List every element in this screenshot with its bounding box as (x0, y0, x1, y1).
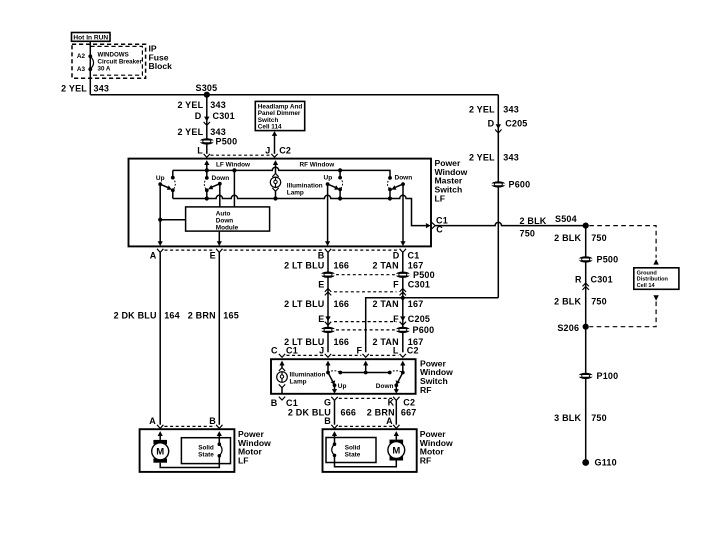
pass-through P500 ground (579, 255, 619, 265)
svg-text:750: 750 (591, 297, 607, 307)
svg-text:C1: C1 (408, 251, 420, 261)
wire 2 TAN 167 pin D down (402, 252, 404, 352)
svg-text:LF: LF (238, 456, 249, 466)
svg-text:Down: Down (376, 383, 394, 390)
dashed pin row of LF motor (165, 425, 216, 427)
svg-text:2 YEL: 2 YEL (469, 152, 495, 162)
svg-text:F: F (393, 279, 399, 289)
svg-text:P100: P100 (597, 371, 619, 381)
headlamp and panel dimmer switch box (255, 101, 304, 130)
svg-text:2 DK BLU: 2 DK BLU (114, 311, 157, 321)
svg-text:C301: C301 (591, 274, 613, 284)
dashed row P500 (336, 274, 395, 276)
auto down module box (186, 207, 270, 231)
svg-text:C1: C1 (286, 398, 298, 408)
svg-text:343: 343 (94, 83, 110, 93)
terminal A3 (88, 67, 92, 71)
power window motor LF box (140, 429, 235, 472)
RF solid state switch (333, 442, 337, 446)
dashed pin row of RF motor (339, 425, 392, 427)
junction auto module feed (232, 168, 236, 172)
svg-text:Hot In RUN: Hot In RUN (73, 35, 108, 42)
LF motor internal bottom wire (160, 463, 219, 468)
dashed wire ground distribution to S206 (589, 302, 656, 327)
svg-text:G: G (324, 398, 331, 408)
stub to LF up contact (172, 170, 174, 177)
splice S206 (583, 324, 589, 330)
svg-text:30 A: 30 A (98, 65, 111, 72)
circuit breaker WINDOWS 30A (90, 56, 93, 69)
svg-text:L: L (393, 346, 399, 356)
svg-text:Solid: Solid (198, 445, 214, 452)
svg-text:A3: A3 (77, 66, 86, 73)
svg-text:LF: LF (435, 194, 446, 204)
svg-text:Block: Block (149, 61, 173, 71)
wire S305 down to master switch pin L (206, 95, 208, 154)
svg-text:RF: RF (420, 385, 431, 395)
junction lamp ground (273, 196, 277, 200)
svg-text:343: 343 (503, 152, 519, 162)
wire 2 BRN 667 (395, 400, 397, 424)
svg-text:Cell 114: Cell 114 (258, 124, 282, 131)
svg-text:D: D (195, 111, 202, 121)
svg-text:167: 167 (408, 299, 424, 309)
wire hot feed from Hot In RUN through breaker (89, 41, 91, 94)
svg-text:Lamp: Lamp (290, 378, 307, 385)
dashed row C205 (334, 321, 397, 323)
dashed pin row of master switch (165, 249, 216, 251)
svg-text:Illumination: Illumination (290, 371, 326, 378)
svg-text:E: E (318, 279, 324, 289)
svg-text:667: 667 (401, 408, 417, 418)
junction RF down bottom (388, 196, 392, 200)
svg-text:Down: Down (395, 175, 413, 182)
pass-through P500 TAN (396, 270, 435, 280)
pass-through P100 (579, 371, 619, 381)
RF switch entry arrows (279, 361, 284, 366)
ground G110 (582, 459, 589, 466)
svg-text:C205: C205 (505, 118, 527, 128)
svg-text:3 BLK: 3 BLK (554, 413, 581, 423)
svg-text:750: 750 (591, 413, 607, 423)
svg-text:A: A (150, 251, 157, 261)
svg-text:Module: Module (216, 224, 239, 231)
svg-text:S305: S305 (196, 83, 218, 93)
LF solid state switch (218, 442, 222, 446)
splice S504 (583, 223, 589, 229)
svg-text:666: 666 (341, 408, 357, 418)
svg-text:J: J (319, 346, 324, 356)
svg-text:Down: Down (216, 217, 233, 224)
svg-text:C1: C1 (286, 346, 298, 356)
svg-text:Distribution: Distribution (637, 277, 669, 283)
svg-text:166: 166 (334, 337, 350, 347)
splice S305 (204, 92, 210, 98)
svg-text:D: D (488, 118, 495, 128)
svg-text:M: M (392, 445, 400, 456)
svg-text:2 YEL: 2 YEL (61, 83, 87, 93)
svg-text:RF: RF (420, 456, 431, 466)
svg-text:166: 166 (334, 299, 350, 309)
dashed row P600 (336, 329, 395, 331)
RF switch common bar (340, 372, 389, 374)
svg-text:C301: C301 (408, 279, 430, 289)
RF up common drop to pin B (327, 184, 329, 242)
illumination lamp of master switch (272, 174, 278, 177)
LF down common drop to auto down module (219, 184, 221, 207)
wire up common down to pin A (159, 184, 161, 241)
svg-text:A: A (386, 416, 393, 426)
svg-text:P500: P500 (597, 255, 619, 265)
svg-text:750: 750 (591, 233, 607, 243)
wire 2 LT BLU 166 pin B down to RF switch pin J (327, 252, 329, 352)
power window motor RF box (323, 429, 417, 472)
wire 2 YEL 343 right branch down (497, 95, 499, 298)
svg-text:State: State (345, 451, 361, 458)
wire pin J up to dimmer switch (274, 135, 276, 154)
svg-text:C205: C205 (408, 314, 430, 324)
IP fuse block dashed box (72, 44, 146, 78)
svg-text:Ground: Ground (637, 270, 658, 276)
RF motor entry arrows (332, 431, 337, 436)
illumination lamp feed arrow at pin J (273, 160, 278, 165)
svg-text:J: J (265, 145, 270, 155)
illumination lamp of RF switch (281, 364, 283, 368)
auto down module output to pin E (218, 231, 220, 242)
pin L entry arrow into box (204, 160, 209, 165)
wire 2 BRN 165 pin E to LF motor (218, 252, 220, 424)
RF switch down contact (401, 371, 405, 375)
Hot In RUN label box (72, 33, 111, 42)
svg-text:Lamp: Lamp (287, 190, 304, 197)
svg-text:165: 165 (223, 311, 239, 321)
svg-text:2 LT BLU: 2 LT BLU (284, 260, 324, 270)
RF motor M (390, 440, 404, 444)
wire 2 DK BLU 164 pin A to LF motor (159, 252, 161, 424)
svg-text:Up: Up (156, 175, 165, 182)
svg-text:A: A (149, 416, 156, 426)
RF down common drop to pin D (402, 184, 404, 242)
junction to auto down module left (158, 218, 162, 222)
svg-text:P500: P500 (413, 270, 435, 280)
pass-through P600 TAN (396, 325, 435, 335)
svg-text:P600: P600 (413, 325, 435, 335)
svg-text:F: F (393, 314, 399, 324)
svg-text:C2: C2 (279, 145, 291, 155)
stub to RF up contact (339, 170, 341, 177)
wire S504 ground column down to G110 (585, 226, 587, 463)
svg-text:C2: C2 (403, 398, 415, 408)
svg-text:Down: Down (212, 175, 230, 182)
LF motor entry arrows (158, 431, 163, 436)
pass-through P600 (491, 180, 530, 190)
svg-text:G110: G110 (595, 458, 617, 468)
pin C1 C exit arrow (426, 223, 431, 228)
terminal A2 (88, 54, 92, 58)
svg-text:166: 166 (334, 260, 350, 270)
svg-text:WINDOWS: WINDOWS (98, 51, 129, 58)
junction L feed (205, 168, 209, 172)
svg-text:Illumination: Illumination (287, 183, 323, 190)
wire 2 DK BLU 666 (334, 400, 336, 424)
svg-text:RF Window: RF Window (300, 162, 335, 169)
feed drop to auto down module (233, 170, 235, 207)
svg-text:B: B (209, 416, 216, 426)
svg-text:Auto: Auto (216, 210, 231, 217)
wire 2 BLK 750 to S504 with hop (435, 222, 586, 225)
top bus wire 2 YEL 343 (90, 94, 498, 96)
svg-text:LF Window: LF Window (216, 162, 250, 169)
svg-text:2 BLK: 2 BLK (554, 233, 581, 243)
pass-through P600 LT BLU (321, 327, 335, 333)
svg-text:2 TAN: 2 TAN (372, 299, 398, 309)
svg-text:C2: C2 (407, 346, 419, 356)
svg-text:343: 343 (503, 104, 519, 114)
svg-text:2 YEL: 2 YEL (177, 127, 203, 137)
svg-text:2 BRN: 2 BRN (188, 311, 216, 321)
svg-text:P600: P600 (509, 180, 531, 190)
svg-text:2 LT BLU: 2 LT BLU (284, 299, 324, 309)
junction TAN column (401, 296, 405, 300)
svg-text:E: E (210, 251, 216, 261)
arrow out of ground distribution (653, 295, 658, 301)
svg-text:B: B (324, 416, 331, 426)
pass-through P500 LT BLU (321, 272, 335, 278)
svg-text:R: R (575, 274, 582, 284)
pin B C1 lamp ground of RF switch (279, 397, 285, 400)
svg-text:2 BLK: 2 BLK (554, 297, 581, 307)
dashed row C301 (334, 291, 397, 293)
svg-text:2 YEL: 2 YEL (469, 104, 495, 114)
svg-text:Cell 14: Cell 14 (637, 283, 656, 289)
svg-text:A2: A2 (77, 53, 86, 60)
svg-text:750: 750 (520, 228, 536, 238)
svg-text:343: 343 (210, 100, 226, 110)
RF switch up contact (326, 371, 330, 375)
RF solid state box (326, 438, 376, 463)
wire YEL route to RF switch pin F (366, 298, 499, 353)
svg-text:C301: C301 (213, 111, 235, 121)
RF motor internal bottom wire (335, 461, 397, 467)
junction RF up bottom (338, 196, 342, 200)
LF solid state box (181, 438, 230, 464)
svg-text:B: B (271, 398, 278, 408)
svg-text:2 TAN: 2 TAN (372, 260, 398, 270)
svg-text:S504: S504 (555, 214, 577, 224)
junction LF down bottom (205, 196, 209, 200)
ground bus inside switch with hops (173, 195, 426, 225)
dashed pin row below RF switch (339, 397, 392, 399)
svg-text:D: D (393, 251, 400, 261)
LF motor M (153, 440, 167, 444)
circuit breaker dashed box (90, 46, 142, 75)
svg-text:E: E (318, 314, 324, 324)
svg-text:2 BLK: 2 BLK (520, 216, 547, 226)
svg-text:Solid: Solid (345, 444, 361, 451)
dashed wire S504 to ground distribution (589, 226, 656, 258)
power window master switch LF box (129, 159, 432, 247)
svg-text:B: B (318, 251, 325, 261)
svg-text:P500: P500 (216, 137, 238, 147)
svg-text:2 YEL: 2 YEL (177, 100, 203, 110)
svg-text:164: 164 (164, 311, 180, 321)
dashed pin row L to J (211, 154, 271, 156)
svg-text:C: C (271, 346, 278, 356)
ground distribution cell 14 box (634, 268, 679, 290)
svg-text:F: F (356, 346, 362, 356)
dashed pin row of RF switch top (287, 354, 324, 356)
svg-text:343: 343 (210, 127, 226, 137)
svg-text:State: State (198, 452, 214, 459)
svg-text:L: L (197, 145, 203, 155)
svg-text:M: M (156, 447, 164, 458)
svg-text:K: K (388, 398, 395, 408)
feed wire inside switch with hop over lamp wire (173, 167, 390, 178)
svg-text:Up: Up (338, 383, 347, 390)
pass-through grommet P500 (200, 137, 238, 147)
svg-text:Circuit Breaker: Circuit Breaker (98, 58, 143, 65)
svg-text:Up: Up (324, 175, 333, 182)
svg-text:S206: S206 (557, 323, 579, 333)
power window switch RF box (271, 359, 416, 394)
